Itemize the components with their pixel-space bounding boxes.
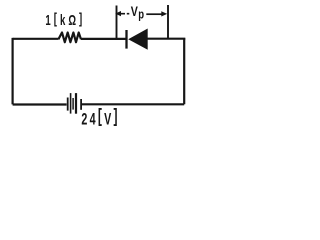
battery BT1 plate 3 short [72,98,74,110]
battery value label 24[V] [81,107,119,130]
diode D1 cathode bar [125,30,127,49]
wire top-right segment [148,38,186,40]
Vp dimension right tick [167,5,169,39]
wire bottom-left segment [13,103,67,105]
battery BT1 plate 4 long [75,93,77,114]
resistor R1 zigzag [58,33,81,43]
Vp left arrow shaft (dashed) [121,13,130,15]
wire left vertical [12,38,14,105]
wire bottom-right segment [82,103,184,105]
battery BT1 plate 2 long [70,93,72,114]
battery BT1 plate 1 short [67,98,69,111]
svg-text:24[V]: 24[V] [81,107,119,130]
svg-text:1[kΩ]: 1[kΩ] [45,10,85,28]
diode D1 triangle [128,29,148,50]
wire top-middle segment [81,38,126,40]
Vp right arrowhead [161,11,167,16]
battery BT1 plate 5 short [80,99,82,110]
resistor value label 1[kOhm] [45,10,85,28]
svg-text:Vp: Vp [131,4,145,22]
Vp right arrow shaft [146,13,162,15]
Vp left arrowhead [115,11,121,16]
Vp label [131,4,145,22]
wire right vertical [183,38,185,104]
wire top-left segment [13,38,59,40]
Vp dimension left tick [116,6,118,39]
